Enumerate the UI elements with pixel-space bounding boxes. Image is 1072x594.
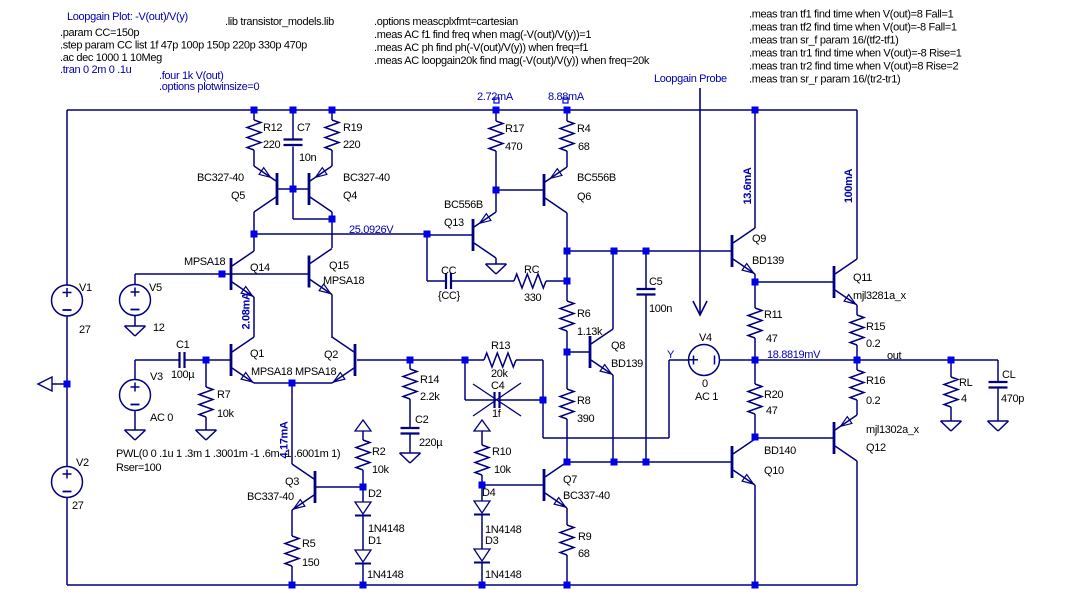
svg-text:10k: 10k: [372, 464, 390, 476]
svg-text:27: 27: [72, 500, 84, 512]
svg-text:D1: D1: [368, 535, 382, 547]
svg-text:100mA: 100mA: [843, 168, 855, 203]
svg-text:Q4: Q4: [343, 190, 357, 202]
svg-text:4.17mA: 4.17mA: [278, 421, 290, 458]
svg-text:Q7: Q7: [563, 474, 577, 486]
svg-text:Q2: Q2: [324, 349, 338, 361]
svg-text:R16: R16: [866, 375, 885, 387]
svg-text:390: 390: [577, 413, 595, 425]
svg-text:{CC}: {CC}: [438, 290, 461, 302]
svg-text:MPSA18: MPSA18: [323, 275, 365, 287]
svg-text:out: out: [887, 350, 902, 362]
svg-text:R6: R6: [577, 308, 591, 320]
svg-text:BC337-40: BC337-40: [247, 491, 294, 503]
svg-text:R17: R17: [505, 123, 524, 135]
svg-text:BC327-40: BC327-40: [343, 172, 390, 184]
svg-text:1N4148: 1N4148: [368, 523, 405, 535]
svg-text:Rser=100: Rser=100: [116, 462, 161, 474]
svg-text:25.0926V: 25.0926V: [349, 224, 394, 236]
svg-text:Q10: Q10: [764, 465, 784, 477]
svg-text:V2: V2: [76, 457, 89, 469]
svg-text:R9: R9: [578, 531, 592, 543]
svg-text:R14: R14: [420, 374, 439, 386]
svg-text:.lib transistor_models.lib: .lib transistor_models.lib: [225, 16, 334, 28]
svg-text:V4: V4: [699, 332, 712, 344]
svg-text:0.2: 0.2: [866, 395, 880, 407]
svg-text:2.08mA: 2.08mA: [240, 292, 252, 329]
svg-text:68: 68: [578, 548, 590, 560]
svg-text:Q5: Q5: [231, 190, 245, 202]
svg-text:Q13: Q13: [444, 217, 464, 229]
svg-text:.ac dec 1000 1 10Meg: .ac dec 1000 1 10Meg: [60, 52, 162, 64]
svg-text:D2: D2: [368, 488, 382, 500]
svg-text:R10: R10: [492, 446, 511, 458]
svg-text:R4: R4: [577, 123, 591, 135]
svg-text:Q11: Q11: [853, 272, 872, 284]
svg-text:0: 0: [702, 378, 708, 390]
svg-text:D4: D4: [482, 487, 496, 499]
svg-text:R19: R19: [343, 122, 362, 134]
svg-text:.step param CC list 1f 47p 100: .step param CC list 1f 47p 100p 150p 220…: [60, 40, 307, 52]
svg-text:1N4148: 1N4148: [485, 569, 522, 581]
svg-text:R2: R2: [372, 446, 386, 458]
svg-text:470p: 470p: [1001, 393, 1024, 405]
svg-text:AC 1: AC 1: [695, 391, 718, 403]
svg-text:D3: D3: [485, 535, 499, 547]
svg-text:BD139: BD139: [611, 358, 643, 370]
svg-text:R20: R20: [764, 389, 783, 401]
svg-text:.meas AC ph find ph(-V(out)/V(: .meas AC ph find ph(-V(out)/V(y)) when f…: [374, 42, 588, 54]
svg-text:Q1: Q1: [250, 348, 264, 360]
svg-text:27: 27: [79, 324, 91, 336]
svg-text:.tran 0 2m 0 .1u: .tran 0 2m 0 .1u: [60, 64, 132, 76]
svg-text:R7: R7: [217, 389, 231, 401]
svg-text:BD140: BD140: [764, 445, 796, 457]
svg-text:1.13k: 1.13k: [577, 326, 603, 338]
svg-text:100µ: 100µ: [171, 369, 195, 381]
svg-text:R5: R5: [302, 538, 316, 550]
svg-text:R11: R11: [764, 309, 783, 321]
svg-text:BC556B: BC556B: [577, 172, 616, 184]
svg-text:R8: R8: [577, 395, 591, 407]
svg-text:4: 4: [961, 393, 967, 405]
svg-text:Q15: Q15: [329, 260, 349, 272]
svg-text:.options meascplxfmt=cartesian: .options meascplxfmt=cartesian: [374, 16, 518, 28]
svg-text:C5: C5: [649, 276, 663, 288]
svg-text:Q12: Q12: [866, 442, 886, 454]
svg-text:.meas tran tr1 find time when: .meas tran tr1 find time when V(out)=-8 …: [749, 48, 962, 60]
svg-text:47: 47: [766, 405, 778, 417]
svg-text:2.72mA: 2.72mA: [477, 91, 514, 103]
svg-text:Q8: Q8: [611, 340, 625, 352]
svg-text:150: 150: [302, 557, 320, 569]
svg-text:.param CC=150p: .param CC=150p: [60, 27, 139, 39]
svg-text:MPSA18 MPSA18: MPSA18 MPSA18: [251, 366, 337, 378]
svg-text:.meas tran tr2 find time when: .meas tran tr2 find time when V(out)=8 R…: [749, 61, 958, 73]
svg-text:.meas tran tf1 find time when: .meas tran tf1 find time when V(out)=8 F…: [749, 9, 954, 21]
svg-text:.meas tran tf2 find time when: .meas tran tf2 find time when V(out)=-8 …: [749, 22, 957, 34]
svg-text:C2: C2: [415, 414, 429, 426]
svg-text:Q6: Q6: [577, 191, 591, 203]
svg-text:12: 12: [153, 322, 165, 334]
svg-text:Q14: Q14: [250, 262, 270, 274]
svg-text:C1: C1: [176, 339, 190, 351]
svg-text:.meas tran sr_r param 16/(tr2-: .meas tran sr_r param 16/(tr2-tr1): [749, 74, 900, 86]
svg-text:.meas AC loopgain20k find mag(: .meas AC loopgain20k find mag(-V(out)/V(…: [374, 55, 650, 67]
svg-text:10k: 10k: [494, 464, 512, 476]
svg-text:.options plotwinsize=0: .options plotwinsize=0: [159, 81, 259, 93]
svg-text:220µ: 220µ: [419, 437, 443, 449]
svg-text:V1: V1: [79, 282, 92, 294]
svg-text:2.2k: 2.2k: [420, 391, 440, 403]
svg-text:C4: C4: [491, 380, 505, 392]
svg-text:BC327-40: BC327-40: [197, 172, 244, 184]
svg-text:CL: CL: [1002, 369, 1016, 381]
svg-text:1N4148: 1N4148: [367, 569, 404, 581]
svg-text:AC 0: AC 0: [150, 412, 173, 424]
svg-text:13.6mA: 13.6mA: [742, 167, 754, 204]
svg-text:0.2: 0.2: [866, 338, 880, 350]
svg-text:MPSA18: MPSA18: [184, 256, 226, 268]
svg-text:RL: RL: [959, 377, 973, 389]
svg-text:R13: R13: [491, 340, 510, 352]
svg-text:C7: C7: [297, 122, 311, 134]
svg-text:Q3: Q3: [285, 476, 299, 488]
svg-text:10k: 10k: [217, 408, 235, 420]
svg-text:PWL(0 0 .1u 1 .3m 1 .3001m -1: PWL(0 0 .1u 1 .3m 1 .3001m -1 .6m -1 .60…: [116, 448, 340, 460]
svg-text:18.8819mV: 18.8819mV: [767, 349, 821, 361]
svg-text:20k: 20k: [491, 368, 509, 380]
svg-text:mjl1302a_x: mjl1302a_x: [866, 424, 920, 436]
svg-text:68: 68: [578, 141, 590, 153]
svg-text:RC: RC: [524, 264, 540, 276]
svg-text:220: 220: [343, 139, 361, 151]
svg-text:.meas AC f1 find freq when mag: .meas AC f1 find freq when mag(-V(out)/V…: [374, 29, 591, 41]
svg-text:1f: 1f: [492, 408, 502, 420]
svg-text:BC337-40: BC337-40: [563, 490, 610, 502]
svg-text:330: 330: [524, 292, 542, 304]
svg-text:R15: R15: [866, 321, 885, 333]
svg-text:10n: 10n: [299, 152, 317, 164]
svg-text:BD139: BD139: [752, 255, 784, 267]
svg-text:R12: R12: [263, 122, 282, 134]
svg-text:Loopgain Plot: -V(out)/V(y): Loopgain Plot: -V(out)/V(y): [67, 11, 188, 23]
svg-text:470: 470: [505, 141, 523, 153]
svg-text:8.88mA: 8.88mA: [548, 91, 585, 103]
svg-text:Loopgain Probe: Loopgain Probe: [654, 73, 727, 85]
svg-text:V5: V5: [149, 282, 162, 294]
svg-text:220: 220: [263, 139, 281, 151]
svg-text:V3: V3: [150, 371, 163, 383]
svg-text:BC556B: BC556B: [444, 199, 483, 211]
svg-text:CC: CC: [441, 265, 457, 277]
svg-text:100n: 100n: [649, 303, 672, 315]
svg-text:47: 47: [766, 333, 778, 345]
svg-text:mjl3281a_x: mjl3281a_x: [853, 290, 907, 302]
svg-text:Y: Y: [667, 349, 675, 361]
svg-text:.meas tran sr_f param 16/(tf2-: .meas tran sr_f param 16/(tf2-tf1): [749, 35, 899, 47]
svg-text:Q9: Q9: [752, 233, 766, 245]
